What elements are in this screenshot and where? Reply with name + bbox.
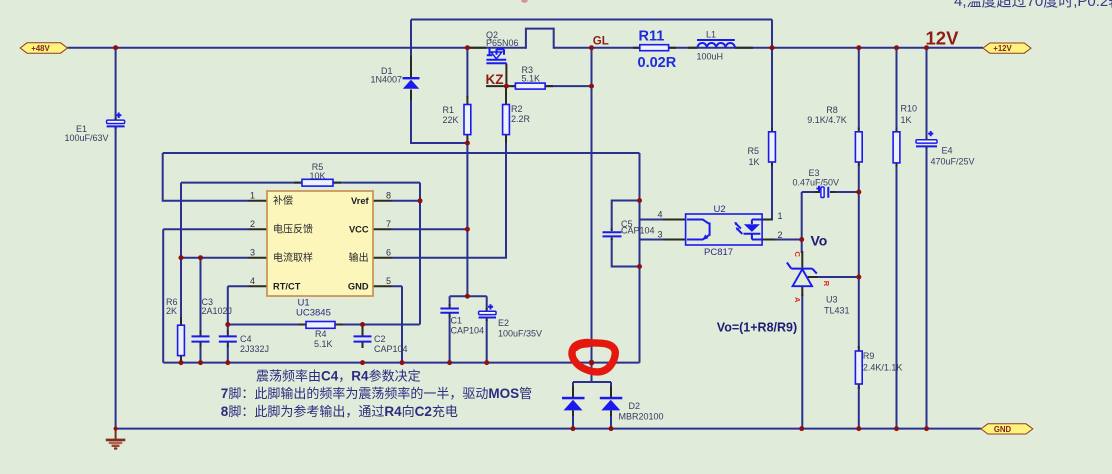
- svg-text:R4: R4: [315, 329, 327, 339]
- svg-text:A: A: [793, 297, 802, 303]
- svg-text:2A102J: 2A102J: [202, 306, 233, 316]
- stub R2 leads: [505, 86, 507, 143]
- power flag +12V: [983, 43, 1031, 53]
- svg-text:R2: R2: [511, 104, 523, 114]
- wire mid rail y=362.6: [163, 362, 639, 364]
- stub chip pins right: [373, 201, 392, 286]
- power flag GND: [981, 424, 1033, 434]
- wire R3 line y=86.1: [511, 85, 592, 87]
- node dot D1/R1: [465, 141, 470, 146]
- stub E4 leads: [926, 138, 928, 150]
- wire E1 branch x=115.6: [115, 48, 117, 429]
- wire y=153 line: [163, 152, 640, 154]
- wire U2 pin3: [640, 239, 665, 241]
- svg-text:3: 3: [657, 230, 662, 240]
- svg-text:E3: E3: [809, 168, 820, 178]
- diode D2a: [562, 397, 585, 411]
- capacitor E2: [479, 304, 496, 317]
- wire bottom GND rail y=428.6: [116, 428, 981, 430]
- stub R10 leads: [896, 128, 898, 168]
- svg-text:22K: 22K: [443, 115, 459, 125]
- svg-text:U2: U2: [714, 204, 726, 215]
- svg-text:CAP104: CAP104: [451, 326, 485, 336]
- wire R5 10K loop: [181, 183, 420, 363]
- wire E4 vertical x=926.5: [926, 48, 928, 429]
- node dot Vref: [418, 198, 423, 203]
- node dots KZ/GL line: [504, 84, 594, 89]
- svg-text:1: 1: [777, 211, 782, 221]
- svg-text:2.4K/1.1K: 2.4K/1.1K: [863, 363, 903, 373]
- wire pin1 comp: [163, 153, 249, 201]
- resistor R9: [855, 351, 862, 384]
- svg-text:8: 8: [386, 191, 391, 201]
- svg-text:10K: 10K: [309, 171, 325, 181]
- svg-text:2J332J: 2J332J: [240, 344, 269, 354]
- wire pin4/C4 branch x=227.8: [228, 286, 249, 362]
- stub E3 leads: [815, 191, 835, 193]
- stub C5 leads: [611, 229, 613, 241]
- wire TL431 anode: [801, 294, 803, 429]
- svg-text:2: 2: [777, 230, 782, 240]
- svg-text:5.1K: 5.1K: [522, 74, 541, 84]
- stub R9 leads: [858, 346, 860, 389]
- inductor L1: [697, 40, 735, 48]
- pin numbers U2: [657, 210, 782, 241]
- svg-text:补偿: 补偿: [273, 194, 293, 207]
- resistor R10: [893, 132, 900, 163]
- svg-text:CAP104: CAP104: [621, 226, 655, 236]
- svg-text:R8: R8: [826, 105, 838, 115]
- wire pin5 GND: [392, 286, 403, 362]
- pin names U1: [273, 194, 369, 291]
- wire E2 branch: [486, 296, 488, 362]
- stub C1 leads: [449, 304, 451, 317]
- svg-text:D2: D2: [629, 401, 641, 411]
- node dot VCC: [465, 227, 470, 232]
- wire GL vertical x=591.5: [591, 48, 593, 363]
- svg-text:4: 4: [250, 276, 255, 286]
- svg-text:2K: 2K: [166, 306, 177, 316]
- wire C1 branch: [449, 296, 451, 362]
- stub C4 leads: [227, 331, 229, 348]
- wire Vref vertical x=420: [419, 183, 421, 325]
- wire D2 branch: [573, 363, 611, 429]
- svg-text:R9: R9: [863, 351, 875, 361]
- regulator U3 TL431: [787, 263, 817, 287]
- stub L1 leads: [688, 47, 753, 49]
- svg-text:7脚：此脚输出的频率为震荡频率的一半，驱动MOS管: 7脚：此脚输出的频率为震荡频率的一半，驱动MOS管: [221, 386, 532, 401]
- wire U2 pin4: [640, 219, 665, 221]
- stub R11 leads: [633, 47, 676, 49]
- capacitor E1: [107, 113, 125, 127]
- wire pin3 line: [181, 257, 249, 259]
- svg-text:CAP104: CAP104: [374, 344, 408, 354]
- svg-text:0.02R: 0.02R: [638, 55, 677, 71]
- svg-text:PC817: PC817: [704, 247, 733, 258]
- svg-text:GL: GL: [593, 35, 609, 47]
- node dots bottom rail: [114, 426, 929, 431]
- wire U2 pin2 to Vo: [774, 239, 802, 241]
- svg-text:GND: GND: [994, 425, 1012, 434]
- stub E2 leads: [486, 308, 488, 321]
- svg-text:4,温度超过70度时,P0.2输: 4,温度超过70度时,P0.2输: [954, 0, 1112, 10]
- svg-text:P65N06: P65N06: [486, 38, 519, 48]
- svg-text:1K: 1K: [749, 157, 760, 167]
- wire C1 E2 bar y=296.2: [450, 295, 487, 297]
- transistor Q2: [486, 49, 506, 64]
- red pen start blob: [575, 343, 588, 347]
- stub R1 leads: [466, 96, 468, 143]
- opto U2 LED: [734, 220, 762, 240]
- diode D1: [403, 77, 420, 89]
- stub R4 leads: [298, 324, 343, 326]
- svg-text:1K: 1K: [901, 115, 912, 125]
- svg-text:6: 6: [386, 248, 391, 258]
- resistor R2: [503, 105, 510, 135]
- svg-text:100uH: 100uH: [697, 52, 724, 62]
- stub R5 10K leads: [294, 182, 341, 184]
- ground symbol: [106, 429, 126, 449]
- svg-text:RT/CT: RT/CT: [273, 281, 301, 291]
- svg-text:3: 3: [250, 248, 255, 258]
- svg-text:TL431: TL431: [824, 306, 850, 316]
- stub C3 leads: [200, 330, 202, 347]
- capacitor E4: [916, 131, 937, 146]
- stub R5 1K leads: [771, 128, 773, 167]
- red pen circle: [572, 343, 615, 372]
- svg-text:UC3845: UC3845: [296, 308, 331, 319]
- svg-text:Vo: Vo: [811, 232, 828, 248]
- svg-text:100uF/35V: 100uF/35V: [498, 329, 542, 339]
- svg-text:8脚：此脚为参考输出，通过R4向C2充电: 8脚：此脚为参考输出，通过R4向C2充电: [221, 404, 458, 419]
- wire D1 branch: [411, 20, 467, 144]
- stub E1 leads: [115, 118, 117, 130]
- svg-text:KZ: KZ: [486, 72, 504, 87]
- stub D1 leads: [410, 56, 412, 100]
- svg-text:9.1K/4.7K: 9.1K/4.7K: [807, 115, 847, 125]
- node dots pin3 line: [179, 255, 204, 260]
- wire C5 detour: [612, 201, 640, 267]
- svg-text:E2: E2: [498, 318, 509, 328]
- svg-text:Vo=(1+R8/R9): Vo=(1+R8/R9): [717, 321, 797, 335]
- red smudge top: [521, 0, 527, 3]
- resistor R5 10K: [302, 179, 333, 186]
- svg-text:2.2R: 2.2R: [511, 114, 531, 124]
- svg-text:Vref: Vref: [351, 196, 369, 206]
- svg-text:5.1K: 5.1K: [314, 339, 333, 349]
- node dot VCC caps: [465, 294, 470, 299]
- capacitor C2: [354, 336, 372, 341]
- IC U1 UC3845 body: [267, 191, 373, 296]
- wire U2 left vertical x=639.5: [639, 153, 641, 363]
- svg-text:R10: R10: [901, 104, 918, 114]
- svg-text:R: R: [822, 281, 831, 287]
- stub R8 leads: [858, 128, 860, 167]
- stub C2 leads: [362, 325, 364, 349]
- power flag +48V: [20, 43, 67, 53]
- opto U2 phototransistor: [687, 220, 710, 241]
- diode D2b: [600, 397, 623, 411]
- resistor R8: [855, 132, 862, 162]
- node dots mid rail: [179, 360, 595, 366]
- svg-text:U3: U3: [826, 295, 838, 305]
- svg-text:输出: 输出: [349, 251, 369, 264]
- svg-text:C: C: [793, 252, 802, 258]
- capacitor E3: [816, 186, 828, 198]
- svg-text:GND: GND: [348, 281, 369, 291]
- svg-text:2: 2: [250, 219, 255, 229]
- stub Q2 drain lead: [470, 47, 487, 49]
- stub chip pins left: [249, 201, 268, 286]
- stub R3 leads: [506, 85, 553, 87]
- stub TL431 leads: [802, 251, 818, 296]
- opto U2 PC817 body: [686, 214, 763, 245]
- wire R5 1K / U2 pin1 x=772: [770, 48, 772, 220]
- wire bump hop over: [526, 29, 554, 49]
- resistor R1: [464, 105, 471, 135]
- stub Q2 gate lead: [505, 64, 507, 87]
- wire pin2 FB: [163, 229, 248, 362]
- svg-text:E4: E4: [942, 146, 953, 156]
- node dots R4 line: [225, 322, 365, 327]
- svg-text:C4: C4: [240, 334, 252, 344]
- svg-text:VCC: VCC: [349, 225, 369, 235]
- capacitor C5: [603, 232, 622, 236]
- svg-text:L1: L1: [706, 30, 716, 40]
- stub D2 leads: [573, 386, 611, 416]
- svg-text:1N4007: 1N4007: [371, 75, 403, 85]
- wire pin7 VCC: [392, 228, 468, 230]
- svg-text:电压反馈: 电压反馈: [273, 222, 313, 235]
- wire R4 line y=324.5: [228, 324, 420, 326]
- svg-text:0.47uF/50V: 0.47uF/50V: [793, 178, 840, 188]
- TL431 pin letters: [793, 252, 831, 304]
- svg-text:C1: C1: [451, 316, 463, 326]
- capacitor C4: [219, 336, 237, 341]
- resistor R6: [178, 325, 185, 355]
- wire main +48V/12V rail y=48: [67, 47, 983, 49]
- svg-text:R1: R1: [443, 105, 455, 115]
- svg-text:7: 7: [386, 219, 391, 229]
- svg-text:+12V: +12V: [993, 44, 1012, 53]
- svg-text:震荡频率由C4，R4参数决定: 震荡频率由C4，R4参数决定: [256, 369, 421, 384]
- wire Vo vertical / E3: [802, 192, 859, 253]
- resistor R4: [306, 322, 335, 329]
- svg-text:470uF/25V: 470uF/25V: [931, 157, 975, 167]
- svg-text:R11: R11: [639, 29, 665, 45]
- svg-text:电流取样: 电流取样: [273, 251, 313, 264]
- stub U2 pins: [663, 220, 775, 240]
- svg-text:5: 5: [386, 276, 391, 286]
- svg-text:R5: R5: [748, 146, 760, 156]
- wire TL431 ref: [816, 276, 859, 278]
- node dots top rail: [113, 45, 929, 50]
- capacitor C1: [440, 309, 459, 313]
- svg-text:100uF/63V: 100uF/63V: [65, 133, 109, 143]
- svg-text:4: 4: [657, 210, 662, 220]
- resistor R5 1K: [769, 132, 776, 162]
- capacitor C3: [192, 336, 210, 341]
- node dots C5: [637, 198, 642, 269]
- svg-text:C2: C2: [374, 334, 386, 344]
- stub KZ net: [486, 85, 506, 87]
- stub R6 leads: [180, 317, 182, 362]
- node dot Vo: [799, 237, 804, 242]
- wire R10 vertical x=896.5: [896, 48, 898, 429]
- wire R1/VCC vertical x=467.4: [466, 48, 468, 297]
- svg-text:12V: 12V: [926, 27, 960, 48]
- wire pin8: [392, 200, 421, 202]
- svg-text:+48V: +48V: [31, 44, 50, 53]
- svg-text:MBR20100: MBR20100: [619, 412, 664, 422]
- wire C3 branch x=200.5: [200, 258, 202, 363]
- wire top loop y=19.5: [411, 20, 772, 48]
- resistor R3: [515, 83, 545, 89]
- pin numbers U1: [250, 191, 391, 287]
- wire R8/R9 vertical x=858.8: [858, 48, 860, 429]
- resistor R11: [640, 45, 669, 51]
- node dots R8 branch: [856, 190, 861, 280]
- svg-text:1: 1: [250, 191, 255, 201]
- wire R2 to pin6: [392, 141, 507, 258]
